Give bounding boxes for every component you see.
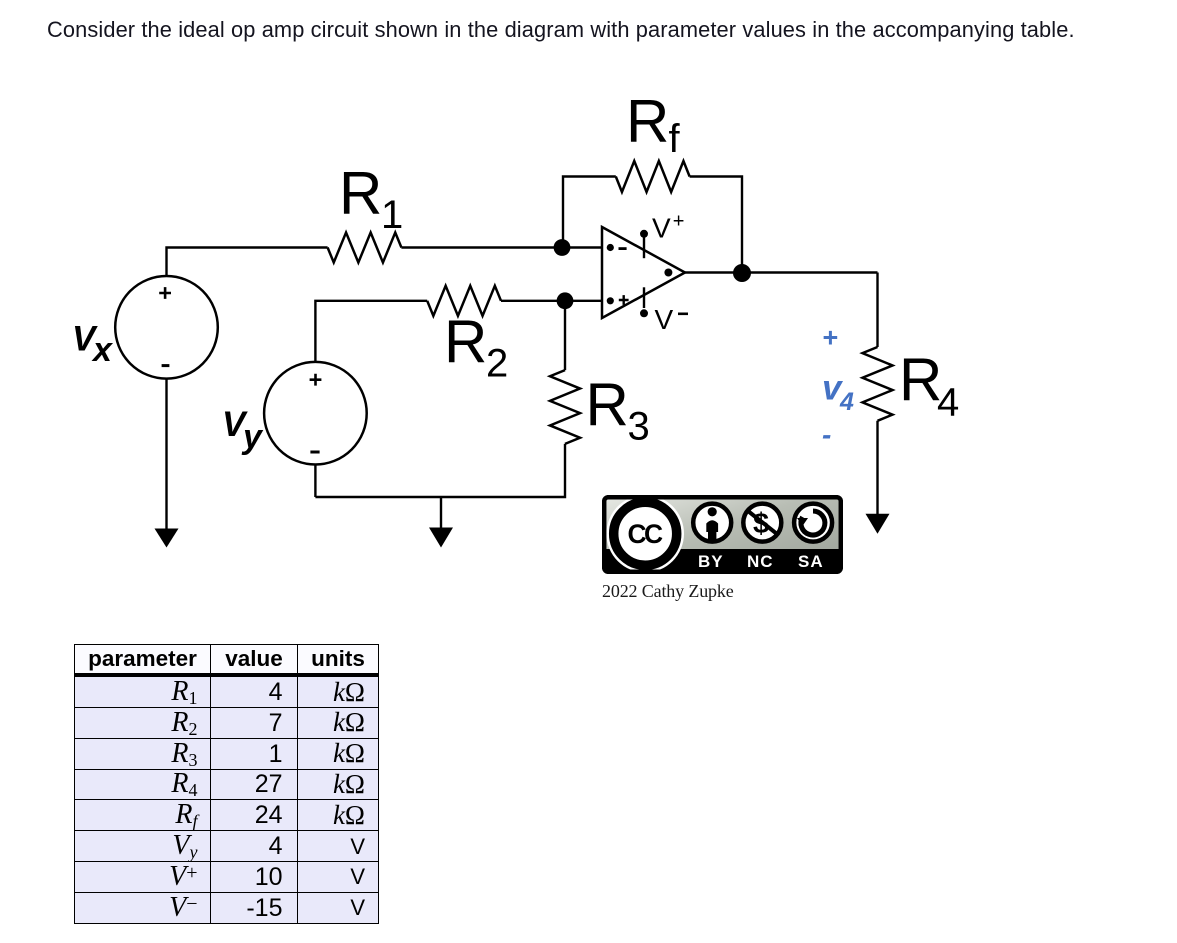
svg-text:2: 2 xyxy=(486,342,508,386)
resistor R3 xyxy=(550,370,580,444)
node A junction dot inverting input xyxy=(554,239,571,256)
wire output corner down to R4 xyxy=(876,273,878,348)
ground arrow xyxy=(429,528,453,548)
svg-text:R: R xyxy=(586,371,629,438)
label Rf xyxy=(626,88,681,161)
label v4 plus xyxy=(822,323,838,353)
CC logo halo xyxy=(606,495,684,573)
label v4 minus xyxy=(822,419,831,450)
op-amp inverting pin dot xyxy=(607,244,614,251)
voltage source Vx xyxy=(115,276,218,379)
wire from R2 to non-inverting input xyxy=(501,300,610,302)
label R1 xyxy=(339,160,403,237)
feedback wire right down to output node xyxy=(690,177,742,274)
resistor Rf xyxy=(616,161,690,192)
wire from node B down to R3 xyxy=(564,301,566,370)
NC icon xyxy=(743,504,781,542)
ground arrow under R4 xyxy=(866,514,890,534)
svg-text:4: 4 xyxy=(937,381,959,425)
SA icon xyxy=(794,504,832,542)
svg-text:R: R xyxy=(339,160,382,227)
svg-text:3: 3 xyxy=(628,404,650,448)
wire from Vx bottom to arrow xyxy=(165,379,167,529)
label V- xyxy=(655,304,689,335)
label v4 xyxy=(822,369,854,417)
svg-text:NC: NC xyxy=(747,552,774,571)
svg-text:CC: CC xyxy=(628,519,664,549)
resistor R4 xyxy=(863,347,893,421)
credit text xyxy=(602,581,734,602)
op-amp output pin dot xyxy=(664,269,672,277)
svg-text:V: V xyxy=(655,304,674,335)
label R4 xyxy=(899,347,959,425)
ground arrow under Vx xyxy=(155,529,179,548)
label Vx xyxy=(72,320,114,370)
svg-text:R: R xyxy=(444,309,487,376)
label V+ xyxy=(652,211,684,244)
resistor R2 xyxy=(427,286,501,316)
svg-text:+: + xyxy=(673,211,685,233)
wire from R1 to inverting input xyxy=(401,246,610,248)
wire from Vx top to R1 xyxy=(167,248,328,277)
svg-text:R: R xyxy=(899,347,942,414)
op-amp V+ power pin dot and stub xyxy=(640,230,648,258)
CC BY-NC-SA license badge xyxy=(602,495,843,574)
svg-text:SA: SA xyxy=(798,552,824,571)
svg-text:1: 1 xyxy=(381,193,403,237)
svg-text:4: 4 xyxy=(839,388,854,416)
title text xyxy=(47,17,1075,43)
svg-text:BY: BY xyxy=(698,552,724,571)
voltage source Vy xyxy=(264,362,367,465)
svg-text:V: V xyxy=(652,212,671,243)
CC logo ring xyxy=(614,502,677,565)
op-amp minus sign xyxy=(619,247,627,250)
op-amp plus sign xyxy=(619,295,629,305)
svg-text:R: R xyxy=(626,88,669,155)
black band xyxy=(602,549,843,574)
op-amp V- power pin dot and stub xyxy=(640,287,648,317)
svg-text:f: f xyxy=(669,117,681,161)
op-amp U1 triangle xyxy=(602,227,685,318)
svg-text:+: + xyxy=(822,323,838,353)
wire from Vy top to R2 xyxy=(315,301,427,362)
wire R4 bottom to arrow xyxy=(876,421,878,514)
wire from Vy bottom to ground rail xyxy=(314,464,316,497)
resistor R1 xyxy=(328,233,402,263)
label R2 xyxy=(444,309,508,386)
output wire xyxy=(685,271,878,273)
wire from R3 bottom to ground rail xyxy=(315,444,565,497)
svg-text:x: x xyxy=(91,331,114,369)
label R3 xyxy=(586,371,650,448)
label Vy xyxy=(222,405,264,456)
svg-text:-: - xyxy=(822,419,831,450)
svg-text:y: y xyxy=(241,418,264,456)
node C output junction dot xyxy=(733,264,751,282)
BY icon xyxy=(693,504,731,542)
feedback wire left from node A up xyxy=(563,177,616,248)
op-amp non-inverting pin dot xyxy=(607,297,614,304)
node B junction dot non-inverting input xyxy=(557,292,574,309)
ground arrow stem xyxy=(440,497,442,528)
parameter table xyxy=(74,644,379,924)
